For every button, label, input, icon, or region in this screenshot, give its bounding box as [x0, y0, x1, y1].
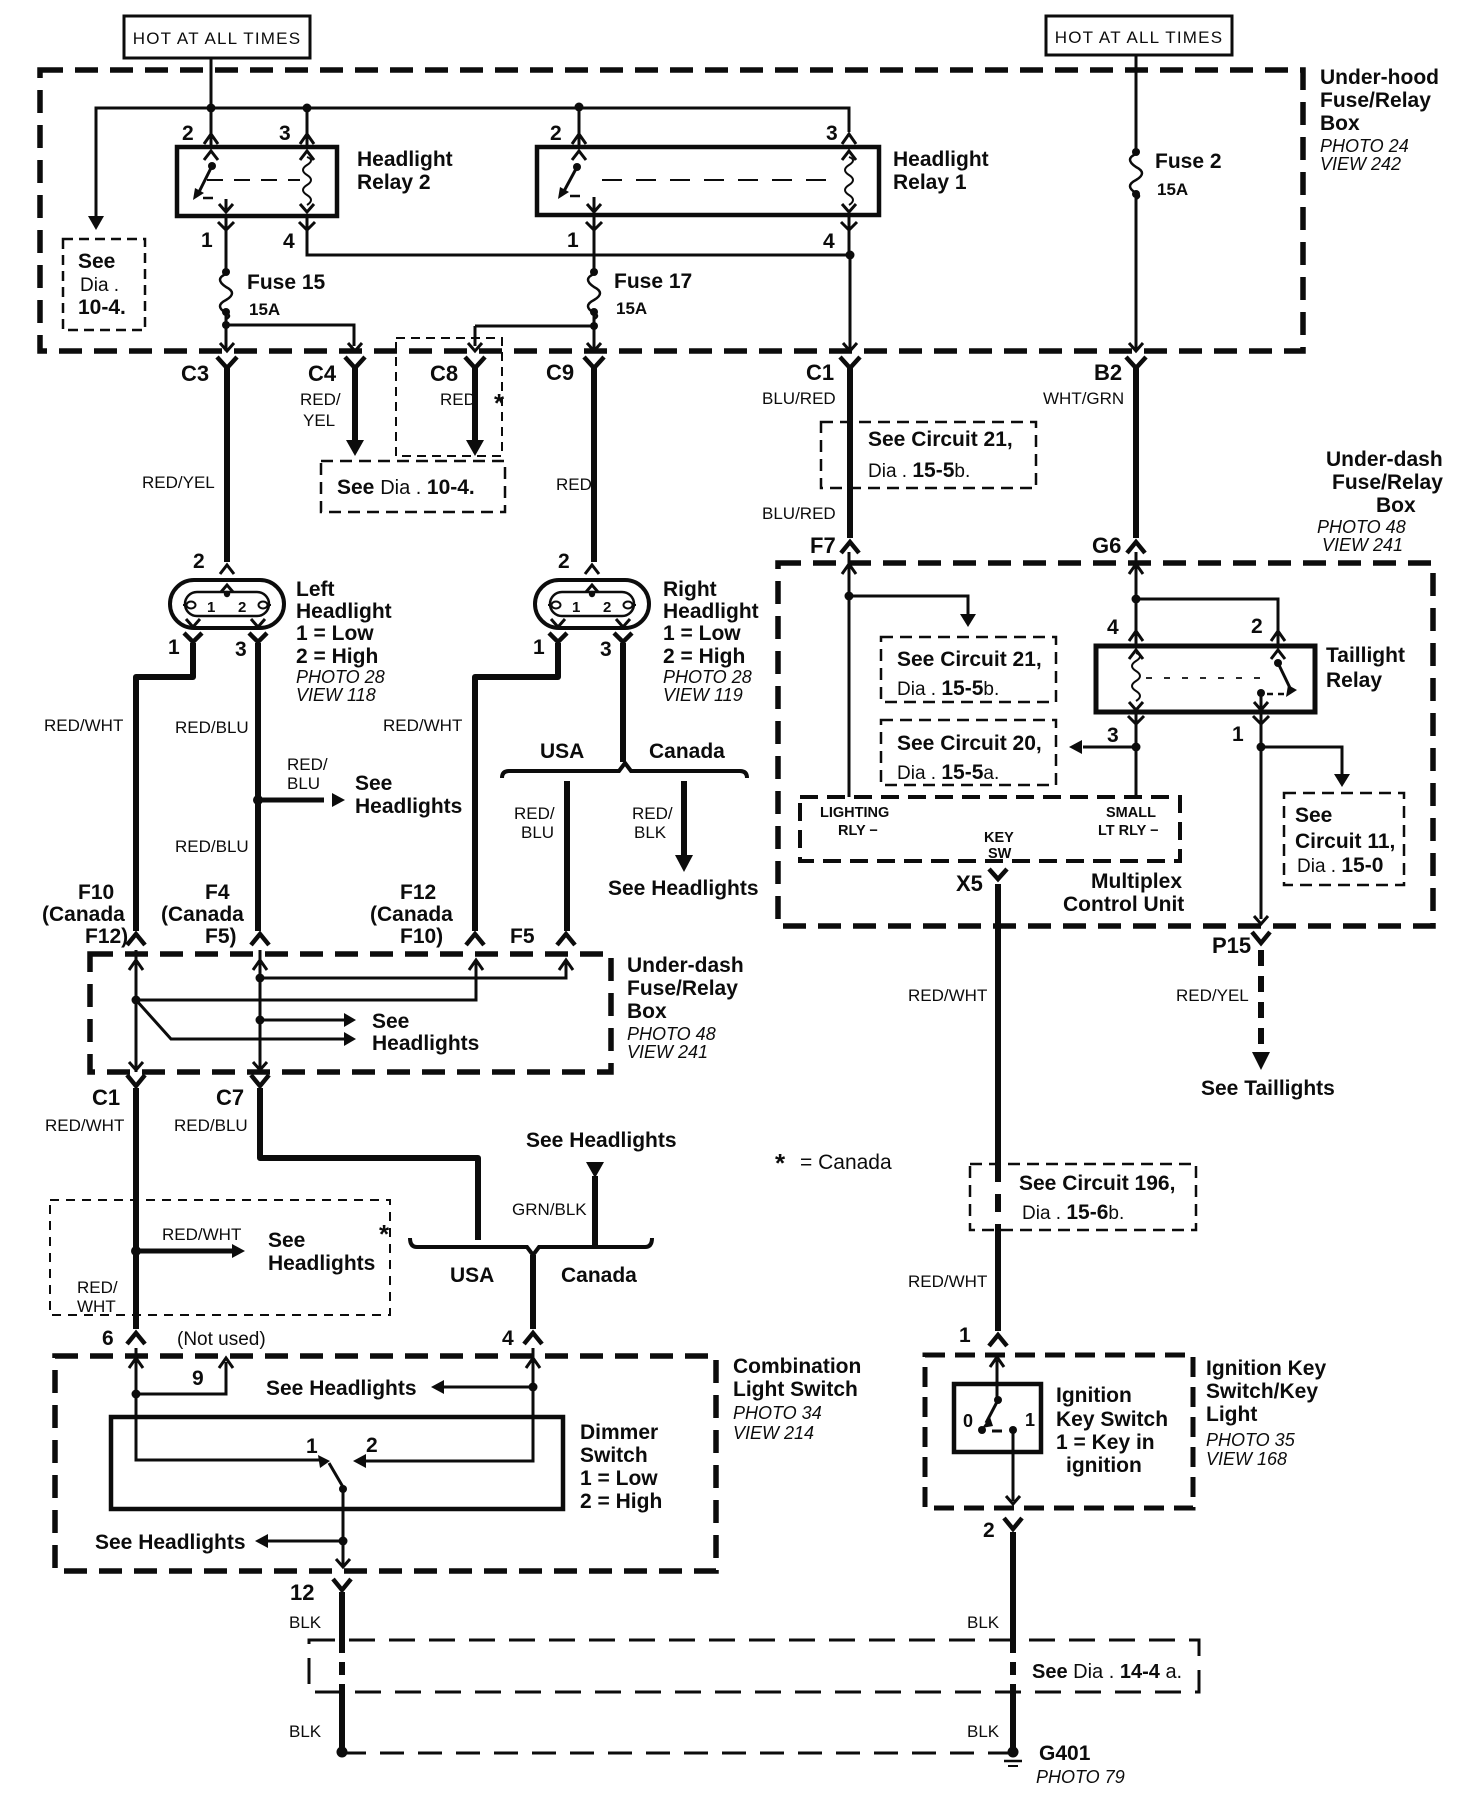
svg-text:Fuse/Relay: Fuse/Relay: [1332, 471, 1443, 494]
svg-text:2 = High: 2 = High: [580, 1490, 662, 1513]
svg-text:4: 4: [1107, 616, 1119, 639]
svg-text:*: *: [494, 388, 505, 418]
svg-text:15A: 15A: [249, 300, 280, 319]
svg-text:PHOTO 35: PHOTO 35: [1206, 1430, 1296, 1450]
svg-text:PHOTO 48: PHOTO 48: [1317, 517, 1406, 537]
svg-text:1: 1: [168, 636, 180, 659]
svg-text:RED/: RED/: [287, 755, 328, 774]
svg-text:Relay 1: Relay 1: [893, 171, 967, 194]
svg-text:WHT/GRN: WHT/GRN: [1043, 389, 1124, 408]
svg-text:RED/YEL: RED/YEL: [1176, 986, 1249, 1005]
svg-text:Box: Box: [1376, 494, 1416, 517]
svg-text:1: 1: [1025, 1410, 1035, 1430]
svg-text:See: See: [78, 250, 115, 273]
svg-text:G401: G401: [1039, 1742, 1091, 1765]
svg-text:RED/BLU: RED/BLU: [175, 718, 249, 737]
svg-text:BLU/RED: BLU/RED: [762, 389, 836, 408]
svg-text:C7: C7: [216, 1085, 244, 1110]
svg-text:See Headlights: See Headlights: [526, 1129, 677, 1152]
svg-text:Circuit 11,: Circuit 11,: [1295, 830, 1395, 853]
svg-text:PHOTO 34: PHOTO 34: [733, 1403, 822, 1423]
svg-text:(Not used): (Not used): [177, 1329, 266, 1350]
svg-text:Box: Box: [1320, 112, 1360, 135]
svg-text:2: 2: [603, 599, 611, 616]
svg-text:PHOTO 28: PHOTO 28: [296, 667, 385, 687]
svg-text:Dia . 15-5a.: Dia . 15-5a.: [897, 761, 999, 784]
svg-text:(Canada: (Canada: [161, 903, 244, 926]
svg-text:VIEW 168: VIEW 168: [1206, 1449, 1287, 1469]
svg-text:USA: USA: [540, 740, 584, 763]
svg-text:See Circuit 21,: See Circuit 21,: [897, 648, 1042, 671]
svg-text:RED: RED: [440, 390, 476, 409]
svg-text:15A: 15A: [616, 299, 647, 318]
svg-text:WHT: WHT: [77, 1297, 116, 1316]
svg-text:Ignition Key: Ignition Key: [1206, 1357, 1326, 1380]
svg-text:B2: B2: [1094, 360, 1122, 385]
svg-text:RED/WHT: RED/WHT: [45, 1116, 124, 1135]
svg-text:F7: F7: [810, 533, 836, 558]
svg-text:RED/WHT: RED/WHT: [908, 986, 987, 1005]
svg-text:BLK: BLK: [967, 1722, 1000, 1741]
svg-text:Key Switch: Key Switch: [1056, 1408, 1168, 1431]
svg-text:C1: C1: [92, 1085, 120, 1110]
svg-text:= Canada: = Canada: [800, 1151, 892, 1174]
svg-text:Headlight: Headlight: [663, 600, 759, 623]
svg-text:RED/BLU: RED/BLU: [174, 1116, 248, 1135]
svg-text:Dia . 15-6b.: Dia . 15-6b.: [1022, 1201, 1124, 1224]
svg-text:C4: C4: [308, 361, 337, 386]
svg-text:See Headlights: See Headlights: [95, 1531, 246, 1554]
svg-text:9: 9: [192, 1367, 204, 1390]
svg-text:15A: 15A: [1157, 180, 1188, 199]
svg-text:1: 1: [567, 229, 579, 252]
svg-text:12: 12: [290, 1580, 314, 1605]
svg-text:PHOTO 28: PHOTO 28: [663, 667, 752, 687]
svg-text:RED/: RED/: [300, 390, 341, 409]
svg-text:1: 1: [1232, 723, 1244, 746]
svg-text:See Headlights: See Headlights: [266, 1377, 417, 1400]
svg-text:PHOTO 48: PHOTO 48: [627, 1024, 716, 1044]
svg-text:4: 4: [502, 1327, 514, 1350]
svg-text:Canada: Canada: [561, 1264, 637, 1287]
svg-text:See: See: [355, 772, 392, 795]
svg-text:Right: Right: [663, 578, 717, 601]
svg-text:4: 4: [283, 230, 295, 253]
svg-text:2: 2: [238, 599, 246, 616]
svg-text:Combination: Combination: [733, 1355, 861, 1378]
svg-text:See Taillights: See Taillights: [1201, 1077, 1335, 1100]
svg-text:RED/: RED/: [77, 1278, 118, 1297]
svg-text:Canada: Canada: [649, 740, 725, 763]
svg-text:See Dia . 10-4.: See Dia . 10-4.: [337, 476, 475, 499]
svg-text:RED/: RED/: [632, 804, 673, 823]
svg-text:Dia . 15-0: Dia . 15-0: [1297, 854, 1383, 877]
svg-text:Taillight: Taillight: [1326, 644, 1405, 667]
svg-text:F12: F12: [400, 881, 436, 904]
svg-text:F5: F5: [510, 925, 535, 948]
svg-text:GRN/BLK: GRN/BLK: [512, 1200, 587, 1219]
svg-text:1 = Key in: 1 = Key in: [1056, 1431, 1155, 1454]
svg-text:F4: F4: [205, 881, 230, 904]
svg-text:Headlight: Headlight: [357, 148, 453, 171]
svg-text:3: 3: [826, 122, 838, 145]
svg-text:RED/: RED/: [514, 804, 555, 823]
svg-text:C1: C1: [806, 360, 834, 385]
svg-text:Switch: Switch: [580, 1444, 648, 1467]
svg-text:Dia .: Dia .: [80, 275, 119, 296]
svg-text:VIEW 118: VIEW 118: [296, 685, 376, 705]
svg-text:3: 3: [600, 638, 612, 661]
svg-text:BLK: BLK: [289, 1722, 322, 1741]
svg-text:Control Unit: Control Unit: [1063, 893, 1184, 916]
svg-text:Dia . 15-5b.: Dia . 15-5b.: [897, 677, 999, 700]
svg-text:C9: C9: [546, 360, 574, 385]
svg-text:RLY −: RLY −: [838, 823, 878, 839]
svg-text:1 = Low: 1 = Low: [580, 1467, 658, 1490]
svg-text:1 = Low: 1 = Low: [663, 622, 741, 645]
svg-text:BLU/RED: BLU/RED: [762, 504, 836, 523]
svg-text:2 = High: 2 = High: [663, 645, 745, 668]
svg-text:1: 1: [207, 599, 215, 616]
svg-text:Headlights: Headlights: [372, 1032, 479, 1055]
svg-text:RED/WHT: RED/WHT: [383, 716, 462, 735]
svg-text:RED/WHT: RED/WHT: [44, 716, 123, 735]
svg-text:See Circuit 21,: See Circuit 21,: [868, 428, 1013, 451]
svg-text:X5: X5: [956, 871, 983, 896]
svg-text:1: 1: [959, 1324, 971, 1347]
svg-text:Ignition: Ignition: [1056, 1384, 1132, 1407]
svg-text:Relay 2: Relay 2: [357, 171, 431, 194]
svg-text:Under-dash: Under-dash: [1326, 448, 1443, 471]
svg-text:F5): F5): [205, 925, 237, 948]
svg-text:Multiplex: Multiplex: [1091, 870, 1182, 893]
svg-text:4: 4: [823, 230, 835, 253]
svg-text:(Canada: (Canada: [370, 903, 453, 926]
svg-text:PHOTO 24: PHOTO 24: [1320, 136, 1409, 156]
svg-text:2: 2: [366, 1434, 378, 1457]
svg-text:See Dia . 14-4 a.: See Dia . 14-4 a.: [1032, 1661, 1182, 1683]
svg-text:Fuse 2: Fuse 2: [1155, 150, 1222, 173]
svg-text:SMALL: SMALL: [1106, 805, 1156, 821]
svg-text:BLU: BLU: [287, 774, 320, 793]
svg-text:*: *: [379, 1219, 390, 1249]
svg-text:2: 2: [558, 550, 570, 573]
svg-text:Fuse 17: Fuse 17: [614, 270, 692, 293]
svg-text:P15: P15: [1212, 933, 1251, 958]
svg-text:USA: USA: [450, 1264, 494, 1287]
svg-text:Relay: Relay: [1326, 669, 1382, 692]
svg-text:ignition: ignition: [1066, 1454, 1142, 1477]
svg-text:VIEW 241: VIEW 241: [1322, 535, 1403, 555]
svg-text:C8: C8: [430, 361, 458, 386]
svg-text:10-4.: 10-4.: [78, 296, 126, 319]
svg-text:BLK: BLK: [967, 1613, 1000, 1632]
svg-text:G6: G6: [1092, 533, 1121, 558]
svg-text:See: See: [1295, 804, 1332, 827]
svg-text:0: 0: [963, 1411, 973, 1431]
svg-text:1: 1: [572, 599, 580, 616]
svg-text:Left: Left: [296, 578, 335, 601]
svg-text:Dia . 15-5b.: Dia . 15-5b.: [868, 459, 970, 482]
svg-text:Fuse 15: Fuse 15: [247, 271, 326, 294]
svg-text:1: 1: [533, 636, 545, 659]
svg-text:RED: RED: [556, 475, 592, 494]
svg-text:Light Switch: Light Switch: [733, 1378, 858, 1401]
svg-text:VIEW 214: VIEW 214: [733, 1423, 814, 1443]
svg-text:*: *: [775, 1148, 786, 1178]
svg-text:YEL: YEL: [303, 411, 335, 430]
svg-text:Headlights: Headlights: [355, 795, 462, 818]
svg-text:Headlight: Headlight: [893, 148, 989, 171]
svg-text:F10: F10: [78, 881, 114, 904]
svg-text:2: 2: [550, 122, 562, 145]
svg-text:2: 2: [1251, 615, 1263, 638]
svg-text:See: See: [372, 1010, 409, 1033]
svg-text:BLU: BLU: [521, 823, 554, 842]
svg-text:Box: Box: [627, 1000, 667, 1023]
svg-text:3: 3: [235, 638, 247, 661]
svg-text:HOT AT ALL TIMES: HOT AT ALL TIMES: [1055, 28, 1223, 47]
svg-text:BLK: BLK: [289, 1613, 322, 1632]
svg-text:KEY: KEY: [984, 830, 1014, 846]
svg-text:RED/BLU: RED/BLU: [175, 837, 249, 856]
svg-text:VIEW 241: VIEW 241: [627, 1042, 708, 1062]
svg-text:See Circuit 196,: See Circuit 196,: [1019, 1172, 1175, 1195]
svg-text:Headlights: Headlights: [268, 1252, 375, 1275]
svg-text:SW: SW: [988, 846, 1012, 862]
svg-text:3: 3: [279, 122, 291, 145]
svg-text:BLK: BLK: [634, 823, 667, 842]
svg-text:F10): F10): [400, 925, 443, 948]
svg-text:Fuse/Relay: Fuse/Relay: [627, 977, 738, 1000]
svg-text:2: 2: [193, 550, 205, 573]
svg-text:Dimmer: Dimmer: [580, 1421, 658, 1444]
svg-text:HOT AT ALL TIMES: HOT AT ALL TIMES: [133, 29, 301, 48]
svg-text:2: 2: [182, 122, 194, 145]
svg-text:Under-dash: Under-dash: [627, 954, 744, 977]
svg-text:2: 2: [983, 1519, 995, 1542]
svg-text:VIEW 119: VIEW 119: [663, 685, 743, 705]
svg-text:Fuse/Relay: Fuse/Relay: [1320, 89, 1431, 112]
svg-text:RED/WHT: RED/WHT: [908, 1272, 987, 1291]
svg-text:PHOTO 79: PHOTO 79: [1036, 1767, 1125, 1787]
svg-text:6: 6: [102, 1327, 114, 1350]
svg-text:VIEW 242: VIEW 242: [1320, 154, 1401, 174]
svg-text:(Canada: (Canada: [42, 903, 125, 926]
svg-text:1 = Low: 1 = Low: [296, 622, 374, 645]
svg-text:Light: Light: [1206, 1403, 1257, 1426]
svg-text:RED/WHT: RED/WHT: [162, 1225, 241, 1244]
svg-text:See Headlights: See Headlights: [608, 877, 759, 900]
svg-text:3: 3: [1107, 724, 1119, 747]
svg-text:See: See: [268, 1229, 305, 1252]
svg-text:See Circuit 20,: See Circuit 20,: [897, 732, 1042, 755]
svg-text:1: 1: [306, 1435, 318, 1458]
svg-text:Switch/Key: Switch/Key: [1206, 1380, 1318, 1403]
svg-text:1: 1: [201, 229, 213, 252]
svg-text:Under-hood: Under-hood: [1320, 66, 1439, 89]
svg-text:LT RLY −: LT RLY −: [1098, 823, 1159, 839]
svg-text:F12): F12): [85, 925, 128, 948]
svg-text:2 = High: 2 = High: [296, 645, 378, 668]
svg-text:C3: C3: [181, 361, 209, 386]
svg-text:RED/YEL: RED/YEL: [142, 473, 215, 492]
svg-text:Headlight: Headlight: [296, 600, 392, 623]
svg-text:LIGHTING: LIGHTING: [820, 805, 889, 821]
